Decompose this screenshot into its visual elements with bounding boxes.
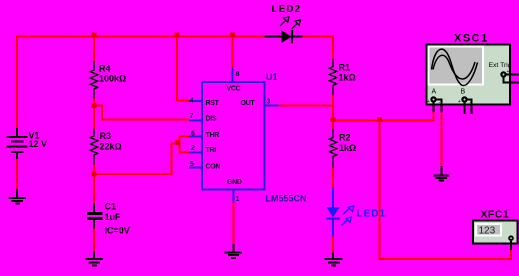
svg-text:GND: GND [227, 179, 242, 186]
wire top rail left [16, 36, 265, 38]
wire C1 top [93, 174, 95, 204]
frequency counter XFC1 [473, 221, 518, 251]
wire junction to THR/TRI tie [93, 144, 180, 175]
svg-text:U1: U1 [266, 72, 278, 82]
wire top rail right of LED2 [303, 36, 334, 38]
wire OUT node horizontal to scope A [333, 120, 435, 122]
svg-text:Ext Trig: Ext Trig [489, 62, 512, 69]
resistor R2 [329, 129, 336, 169]
pin 5 stub [189, 166, 202, 168]
svg-text:LED1: LED1 [357, 209, 387, 220]
resistor R4 [90, 61, 97, 99]
terminal XFC1 [508, 235, 514, 241]
pin 4 stub [189, 100, 202, 102]
junction OUT R2 [331, 117, 336, 122]
wire OUT node down to counter [380, 121, 513, 260]
wire THR/TRI vertical tie [179, 136, 181, 154]
svg-text:R2: R2 [339, 133, 351, 143]
junction R4 bottom [92, 103, 97, 108]
ground battery [9, 189, 27, 203]
svg-text:4: 4 [190, 98, 194, 105]
wire battery top [16, 36, 18, 130]
op-amp U1 chip body [189, 68, 279, 203]
pin 3 stub [265, 105, 279, 107]
battery V1 [7, 128, 28, 159]
svg-text:B: B [461, 89, 466, 96]
wire junction to pin7 DIS [94, 106, 189, 120]
junction THR TRI [175, 140, 180, 145]
capacitor C1 [87, 204, 102, 229]
svg-text:22kΩ: 22kΩ [100, 142, 122, 152]
svg-text:XFC1: XFC1 [481, 209, 509, 221]
svg-text:THR: THR [206, 132, 220, 139]
svg-text:A: A [432, 89, 437, 96]
svg-text:C1: C1 [105, 202, 117, 212]
wire rail to pin8 VCC [232, 36, 234, 69]
svg-text:100kΩ: 100kΩ [99, 74, 126, 84]
wire battery bottom [16, 158, 18, 191]
junction rail VCC [230, 33, 235, 38]
junction rail R4 [92, 33, 97, 38]
wire R4 bottom to junction [93, 98, 95, 106]
svg-text:R4: R4 [99, 64, 111, 74]
svg-text:12 V: 12 V [29, 139, 48, 149]
wire C1 bottom [93, 228, 95, 252]
svg-text:1kΩ: 1kΩ [339, 143, 356, 153]
ground chip [225, 244, 243, 258]
svg-text:6: 6 [191, 130, 195, 137]
resistor R1 [329, 59, 336, 95]
wire R3 bottom to junction [93, 164, 95, 175]
svg-text:TRI: TRI [206, 147, 217, 154]
wire chip pin1 to ground [233, 202, 235, 245]
terminal A [427, 96, 442, 112]
wire tie to pin2 TRI [180, 151, 190, 153]
svg-text:DIS: DIS [206, 116, 217, 123]
svg-text:+: + [507, 69, 510, 75]
LED1 [326, 187, 353, 237]
wire junction to R3 top [93, 106, 95, 129]
terminal B [458, 96, 472, 114]
wire R4 top [93, 37, 95, 63]
svg-text:R1: R1 [339, 63, 351, 73]
wire pin3 OUT to R1 column [279, 105, 335, 107]
pin 1 stub [233, 190, 235, 203]
svg-text:RST: RST [206, 100, 220, 107]
svg-text:7: 7 [190, 113, 194, 120]
wire R1 column vertical [332, 36, 334, 60]
wire counter terminal drop [510, 248, 512, 260]
ground C1 [86, 252, 103, 266]
wire R2 bottom to LED1 [332, 168, 334, 189]
ground scope [434, 166, 450, 181]
wire scope A drop [433, 111, 435, 122]
pin 8 stub [232, 68, 234, 83]
wire scope A minus to ground [441, 112, 443, 167]
wire rail to pin4 RST [177, 36, 189, 101]
pin 6 stub [189, 136, 202, 138]
svg-text:R3: R3 [100, 131, 112, 141]
svg-text:123: 123 [479, 226, 496, 237]
svg-text:XSC1: XSC1 [454, 33, 489, 45]
svg-text:8: 8 [236, 71, 240, 78]
svg-text:1uF: 1uF [105, 212, 122, 222]
svg-text:1: 1 [236, 196, 240, 203]
svg-text:IC=0V: IC=0V [105, 226, 130, 236]
wire R1 bottom through OUT node [332, 95, 334, 130]
pin 2 stub [189, 151, 202, 153]
junction R3 C1 [92, 172, 97, 177]
svg-text:CON: CON [206, 164, 221, 171]
svg-text:OUT: OUT [241, 100, 256, 107]
svg-text:2: 2 [191, 145, 195, 152]
svg-text:VCC: VCC [227, 86, 241, 93]
junction scope branch [377, 117, 382, 122]
LED2 [265, 17, 303, 43]
svg-text:1kΩ: 1kΩ [339, 73, 356, 83]
ground LED1 [325, 253, 343, 266]
svg-text:+: + [458, 99, 461, 105]
svg-text:+: + [427, 99, 430, 105]
wire tie to pin6 THR [180, 136, 190, 138]
svg-text:LED2: LED2 [272, 4, 302, 15]
scope trace inner [433, 55, 475, 79]
resistor R3 [90, 129, 97, 165]
svg-text:LM555CN: LM555CN [266, 194, 307, 204]
svg-text:3: 3 [267, 99, 271, 106]
oscilloscope XSC1 [427, 45, 511, 105]
pin 7 stub [189, 120, 202, 122]
junction rail pin4 [175, 33, 180, 38]
wire LED1 bottom to ground [332, 236, 334, 253]
terminal Ext Trig [500, 69, 519, 83]
scope trace outer [432, 49, 478, 85]
svg-text:5: 5 [190, 161, 194, 168]
